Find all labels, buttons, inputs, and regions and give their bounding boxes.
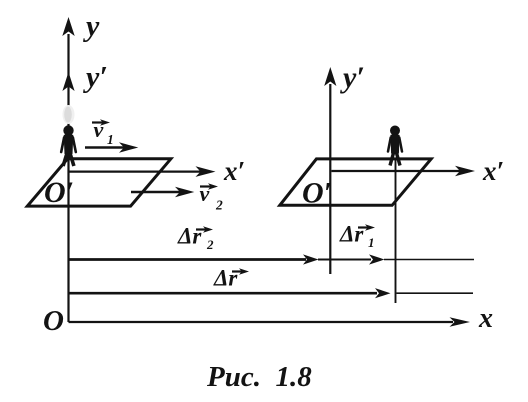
displacement row 1: delta r2 arrow xyxy=(69,258,475,261)
white-out smudge on y axis xyxy=(63,105,75,124)
velocity vector v1 arrow xyxy=(85,146,125,148)
svg-text:1: 1 xyxy=(107,132,114,147)
svg-text:O: O xyxy=(43,305,64,337)
svg-text:Δr: Δr xyxy=(339,222,364,247)
right y' arrowhead xyxy=(324,67,336,86)
svg-text:y′: y′ xyxy=(340,61,365,94)
svg-text:Рис. 1.8: Рис. 1.8 xyxy=(206,361,312,393)
right x' arrowhead xyxy=(455,166,475,177)
y axis (vertical line from origin O) xyxy=(67,34,69,322)
right x' axis (dashed) xyxy=(332,170,471,172)
svg-text:2: 2 xyxy=(215,198,223,213)
svg-text:x′: x′ xyxy=(223,156,245,186)
svg-text:1: 1 xyxy=(368,235,375,250)
label delta r xyxy=(213,266,249,291)
displacement row 2: delta r arrow xyxy=(69,292,474,295)
velocity vector v2 arrow xyxy=(131,191,181,193)
svg-text:O′: O′ xyxy=(302,177,332,210)
svg-text:v: v xyxy=(94,117,104,142)
person on right platform xyxy=(388,126,402,166)
left x' axis (dashed) xyxy=(70,171,211,173)
left x' arrowhead xyxy=(196,166,216,177)
label v1 with vector bar xyxy=(92,117,114,147)
y' axis (right frame), vertical line xyxy=(329,84,331,274)
label delta r2 xyxy=(177,224,214,253)
x axis arrowhead xyxy=(450,317,471,327)
label v2 with vector bar xyxy=(200,181,224,213)
vertical drop line below right person xyxy=(395,160,397,303)
person on left platform xyxy=(61,125,76,166)
svg-text:x′: x′ xyxy=(482,156,504,186)
right platform (parallelogram) xyxy=(280,159,431,205)
svg-text:2: 2 xyxy=(206,237,214,252)
svg-text:x: x xyxy=(478,303,493,334)
left platform (parallelogram) xyxy=(27,159,171,206)
y' arrowhead on same line (left frame axis) xyxy=(62,72,74,91)
label delta r1 xyxy=(339,222,375,251)
svg-text:Δr: Δr xyxy=(177,224,202,249)
x axis xyxy=(69,321,454,323)
svg-text:v: v xyxy=(200,181,210,206)
delta r1 arrowhead on same row xyxy=(369,254,385,264)
svg-text:O′: O′ xyxy=(44,176,74,209)
svg-text:y: y xyxy=(83,10,100,43)
svg-text:Δr: Δr xyxy=(213,266,238,291)
svg-text:y′: y′ xyxy=(83,61,108,94)
y axis arrowhead xyxy=(62,17,74,36)
